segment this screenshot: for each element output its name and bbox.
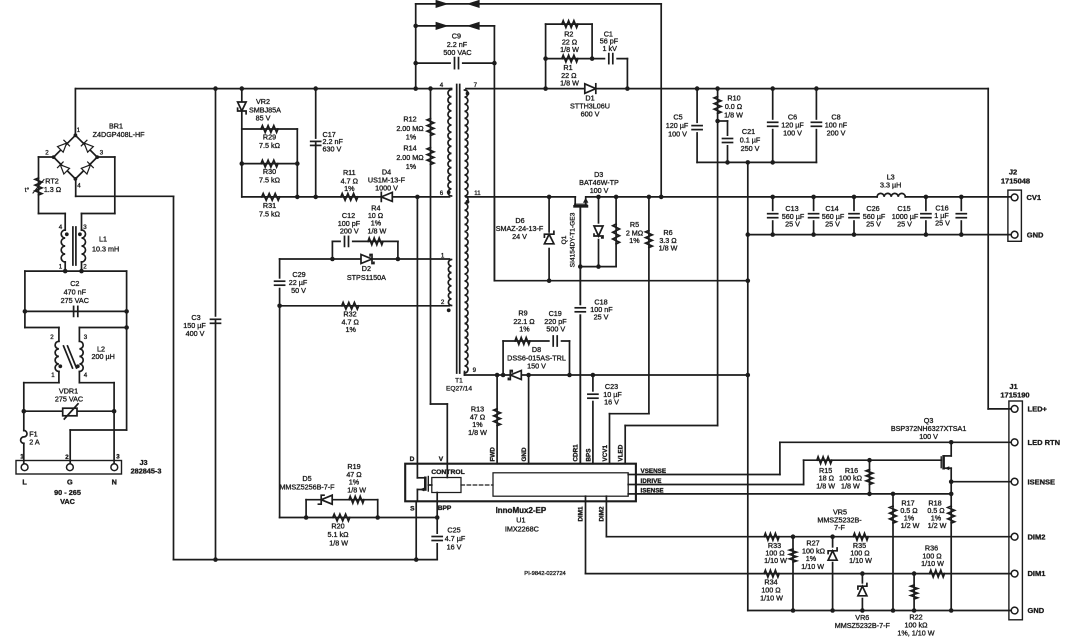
svg-text:100 V: 100 V bbox=[590, 186, 609, 195]
svg-text:S: S bbox=[410, 506, 415, 513]
svg-text:25 V: 25 V bbox=[935, 219, 950, 228]
svg-text:1/2 W: 1/2 W bbox=[901, 521, 920, 530]
svg-text:3: 3 bbox=[83, 224, 87, 231]
svg-text:DIM2: DIM2 bbox=[1028, 532, 1046, 541]
svg-text:CONTROL: CONTROL bbox=[431, 469, 465, 476]
svg-text:11: 11 bbox=[474, 190, 481, 197]
svg-text:2: 2 bbox=[83, 264, 87, 271]
svg-text:IMX2268C: IMX2268C bbox=[505, 524, 539, 533]
svg-text:200 V: 200 V bbox=[827, 129, 846, 138]
svg-text:CV1: CV1 bbox=[1027, 193, 1042, 202]
svg-text:150 V: 150 V bbox=[527, 362, 546, 371]
svg-text:GND: GND bbox=[1027, 230, 1044, 239]
svg-text:100 V: 100 V bbox=[919, 432, 938, 441]
svg-text:1/10 W: 1/10 W bbox=[764, 556, 787, 565]
svg-text:1/8 W: 1/8 W bbox=[659, 244, 678, 253]
svg-text:FWD: FWD bbox=[490, 447, 497, 462]
svg-text:1%: 1% bbox=[406, 133, 417, 142]
svg-text:1/8 W: 1/8 W bbox=[347, 486, 366, 495]
svg-text:100 V: 100 V bbox=[668, 130, 687, 139]
svg-text:VAC: VAC bbox=[60, 497, 76, 506]
svg-text:T1: T1 bbox=[455, 378, 463, 385]
svg-text:1: 1 bbox=[59, 264, 63, 271]
svg-text:1%: 1% bbox=[519, 325, 530, 334]
svg-text:25 V: 25 V bbox=[897, 220, 912, 229]
svg-text:500 VAC: 500 VAC bbox=[443, 48, 471, 57]
svg-text:200 V: 200 V bbox=[340, 227, 359, 236]
svg-text:250 V: 250 V bbox=[741, 144, 760, 153]
svg-text:VLED: VLED bbox=[618, 444, 625, 461]
svg-text:1/8 W: 1/8 W bbox=[724, 111, 743, 120]
svg-text:2.00 MΩ: 2.00 MΩ bbox=[396, 153, 424, 162]
svg-text:3: 3 bbox=[100, 150, 104, 157]
svg-text:GND: GND bbox=[1028, 606, 1045, 615]
svg-text:DIM2: DIM2 bbox=[599, 506, 606, 522]
svg-text:V: V bbox=[439, 456, 444, 463]
svg-text:3: 3 bbox=[84, 334, 88, 341]
svg-text:L1: L1 bbox=[99, 235, 107, 244]
svg-text:1: 1 bbox=[20, 454, 24, 461]
svg-text:4: 4 bbox=[77, 183, 81, 190]
svg-text:1/8 W: 1/8 W bbox=[468, 428, 487, 437]
svg-text:LED+: LED+ bbox=[1028, 405, 1048, 414]
svg-text:1%: 1% bbox=[346, 325, 357, 334]
svg-text:90 - 265: 90 - 265 bbox=[54, 488, 81, 497]
svg-text:U1: U1 bbox=[516, 515, 525, 524]
svg-text:D2: D2 bbox=[362, 264, 371, 273]
svg-text:InnoMux2-EP: InnoMux2-EP bbox=[496, 506, 547, 515]
svg-text:1/8 W: 1/8 W bbox=[841, 482, 860, 491]
svg-text:1/8 W: 1/8 W bbox=[560, 45, 579, 54]
svg-text:10.3 mH: 10.3 mH bbox=[92, 245, 119, 254]
svg-text:1: 1 bbox=[77, 127, 81, 134]
svg-text:25 V: 25 V bbox=[785, 220, 800, 229]
svg-text:6: 6 bbox=[440, 190, 444, 197]
svg-text:PI-9842-022724: PI-9842-022724 bbox=[524, 571, 566, 577]
svg-text:1 kV: 1 kV bbox=[603, 44, 618, 53]
svg-text:2: 2 bbox=[45, 150, 49, 157]
svg-text:3.3 µH: 3.3 µH bbox=[880, 181, 901, 190]
svg-text:4: 4 bbox=[84, 372, 88, 379]
svg-text:7.5 kΩ: 7.5 kΩ bbox=[259, 210, 281, 219]
svg-text:Z4DGP408L-HF: Z4DGP408L-HF bbox=[93, 130, 146, 139]
svg-text:t°: t° bbox=[25, 186, 30, 194]
svg-text:25 V: 25 V bbox=[594, 313, 609, 322]
svg-text:BPP: BPP bbox=[438, 505, 452, 512]
svg-text:GND: GND bbox=[521, 447, 528, 461]
svg-text:1/8 W: 1/8 W bbox=[329, 539, 348, 548]
svg-text:500 V: 500 V bbox=[546, 325, 565, 334]
svg-text:7.5 kΩ: 7.5 kΩ bbox=[259, 141, 281, 150]
svg-text:275 VAC: 275 VAC bbox=[61, 296, 89, 305]
svg-text:1/10 W: 1/10 W bbox=[849, 556, 872, 565]
svg-text:400 V: 400 V bbox=[186, 329, 205, 338]
svg-text:L: L bbox=[22, 478, 27, 487]
svg-text:1/8 W: 1/8 W bbox=[368, 227, 387, 236]
svg-text:4: 4 bbox=[440, 82, 444, 89]
svg-text:STPS1150A: STPS1150A bbox=[347, 273, 386, 282]
svg-text:1/8 W: 1/8 W bbox=[816, 482, 835, 491]
svg-text:EQ27/14: EQ27/14 bbox=[446, 386, 472, 393]
svg-text:DIM1: DIM1 bbox=[578, 506, 585, 522]
svg-text:N: N bbox=[112, 478, 117, 487]
svg-text:25 V: 25 V bbox=[825, 220, 840, 229]
svg-text:16 V: 16 V bbox=[447, 543, 462, 552]
svg-text:DIM1: DIM1 bbox=[1028, 569, 1046, 578]
svg-text:630 V: 630 V bbox=[323, 144, 342, 153]
svg-text:G: G bbox=[67, 478, 73, 487]
svg-text:200 µH: 200 µH bbox=[92, 352, 115, 361]
svg-text:1%, 1/10 W: 1%, 1/10 W bbox=[897, 629, 934, 638]
svg-text:4: 4 bbox=[59, 224, 63, 231]
svg-text:1%: 1% bbox=[344, 184, 355, 193]
svg-text:D: D bbox=[410, 456, 415, 463]
svg-text:16 V: 16 V bbox=[604, 398, 619, 407]
svg-text:1715190: 1715190 bbox=[1000, 391, 1029, 400]
svg-text:1/10 W: 1/10 W bbox=[801, 562, 824, 571]
svg-text:275 VAC: 275 VAC bbox=[55, 395, 83, 404]
svg-text:CDR1: CDR1 bbox=[573, 444, 580, 462]
svg-text:J2: J2 bbox=[1009, 168, 1017, 177]
svg-text:7.5 kΩ: 7.5 kΩ bbox=[259, 176, 281, 185]
svg-text:LED RTN: LED RTN bbox=[1028, 438, 1061, 447]
svg-text:BPS: BPS bbox=[585, 449, 592, 462]
svg-text:2 A: 2 A bbox=[29, 438, 40, 447]
svg-text:9: 9 bbox=[473, 367, 477, 374]
svg-text:50 V: 50 V bbox=[291, 286, 306, 295]
svg-text:85 V: 85 V bbox=[256, 114, 271, 123]
svg-text:MMSZ5232B-7-F: MMSZ5232B-7-F bbox=[835, 621, 891, 630]
svg-text:1%: 1% bbox=[629, 236, 640, 245]
svg-text:1/8 W: 1/8 W bbox=[560, 79, 579, 88]
svg-text:Q1: Q1 bbox=[561, 235, 568, 244]
svg-text:VCV1: VCV1 bbox=[602, 445, 609, 462]
svg-text:100 V: 100 V bbox=[783, 129, 802, 138]
svg-text:25 V: 25 V bbox=[866, 220, 881, 229]
svg-text:2: 2 bbox=[65, 454, 69, 461]
svg-text:MMSZ5256B-7-F: MMSZ5256B-7-F bbox=[279, 483, 335, 492]
svg-text:1000 V: 1000 V bbox=[375, 184, 398, 193]
svg-text:1%: 1% bbox=[406, 162, 417, 171]
svg-text:1/10 W: 1/10 W bbox=[760, 594, 783, 603]
svg-text:SI4154DY-T1-GE3: SI4154DY-T1-GE3 bbox=[570, 212, 577, 267]
svg-text:24 V: 24 V bbox=[512, 232, 527, 241]
svg-text:282845-3: 282845-3 bbox=[131, 467, 162, 476]
svg-text:1/2 W: 1/2 W bbox=[928, 521, 947, 530]
svg-text:2: 2 bbox=[50, 334, 54, 341]
svg-text:1: 1 bbox=[51, 372, 55, 379]
svg-text:ISENSE: ISENSE bbox=[1028, 477, 1056, 486]
svg-text:R14: R14 bbox=[403, 144, 416, 153]
svg-text:1/10 W: 1/10 W bbox=[921, 559, 944, 568]
svg-text:7-F: 7-F bbox=[834, 523, 845, 532]
svg-text:1715048: 1715048 bbox=[1001, 177, 1030, 186]
svg-text:3: 3 bbox=[116, 454, 120, 461]
svg-text:R12: R12 bbox=[403, 115, 416, 124]
svg-text:1.3 Ω: 1.3 Ω bbox=[44, 185, 62, 194]
svg-text:600 V: 600 V bbox=[581, 110, 600, 119]
